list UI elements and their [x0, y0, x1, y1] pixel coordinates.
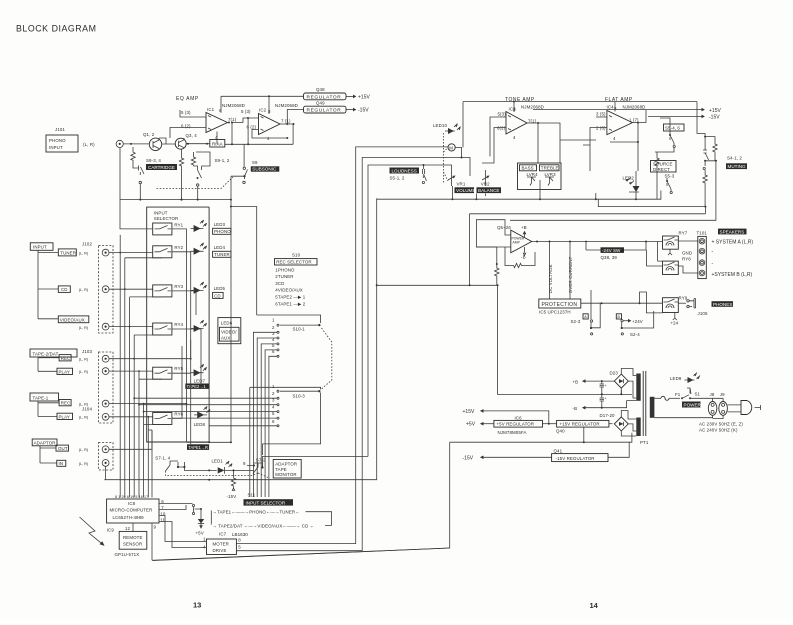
wire IC1 pin4 [216, 132, 218, 144]
line B [598, 199, 705, 206]
svg-text:S10-1: S10-1 [293, 327, 306, 332]
svg-text:S7-1, 4: S7-1, 4 [155, 456, 170, 461]
svg-text:2 (6): 2 (6) [596, 126, 606, 131]
svg-text:INPUT SELECTOR: INPUT SELECTOR [246, 500, 286, 505]
svg-text:4: 4 [203, 545, 206, 550]
svg-text:IN: IN [59, 461, 64, 466]
wires J8 J9 [654, 398, 723, 418]
svg-text:→ TAPE2/DAT ←—→VIDEO/AUX←——→ C: → TAPE2/DAT ←—→VIDEO/AUX←——→ CD ← [213, 523, 315, 528]
phono jack J101 [116, 140, 123, 147]
svg-text:AC 240V 50HZ (K): AC 240V 50HZ (K) [699, 428, 738, 433]
relay out bus b [172, 252, 191, 359]
svg-text:-15V: -15V [709, 115, 720, 121]
wire motor loop [455, 147, 461, 157]
svg-text:6: 6 [272, 419, 275, 424]
svg-text:S7-2: S7-2 [256, 458, 266, 463]
ADAPTOR group label [32, 439, 57, 446]
phono input label box [46, 135, 78, 152]
svg-text:+24: +24 [671, 321, 679, 326]
muting resistor 1 [697, 102, 717, 161]
svg-text:OUT: OUT [58, 446, 68, 451]
SPEAKERS label [718, 229, 747, 235]
wire IC2 output down to S10 [292, 124, 294, 144]
PHONES label [712, 301, 734, 307]
LED4 [194, 248, 201, 255]
CD label led [213, 292, 224, 298]
coil bus 2 [125, 258, 162, 498]
svg-text:VOLUME: VOLUME [456, 188, 475, 193]
svg-text:J102: J102 [82, 242, 92, 247]
svg-text:TONE AMP: TONE AMP [505, 97, 535, 103]
svg-text:RIAA: RIAA [212, 141, 223, 146]
svg-text:S2-3: S2-3 [571, 319, 581, 324]
svg-text:→TAPE1←——→PHONO←—→TUNER←: →TAPE1←——→PHONO←—→TUNER← [213, 510, 300, 515]
wire S5-4,6 [655, 118, 674, 152]
jack tape1 rec [102, 400, 109, 407]
svg-text:REMOTE: REMOTE [123, 535, 143, 540]
svg-text:TAPE2→1: TAPE2→1 [187, 384, 207, 389]
LED3 [194, 225, 201, 232]
svg-text:NJM2068D: NJM2068D [521, 105, 544, 110]
svg-text:8: 8 [614, 106, 617, 111]
svg-text:7 (1): 7 (1) [281, 119, 291, 124]
remote arrow [80, 517, 105, 545]
svg-text:DC VOLTAGE: DC VOLTAGE [548, 264, 553, 293]
resistor Q3 bias 2 [191, 152, 195, 166]
svg-text:12: 12 [125, 526, 131, 531]
IN label [57, 460, 66, 466]
TAPE1-R label [187, 444, 209, 450]
jack adaptor in [102, 460, 109, 467]
-15V rail arrow [648, 115, 703, 117]
power amp output line [532, 241, 662, 243]
LED1 resistor to -15V [231, 470, 235, 490]
filter cap 1 [600, 381, 604, 394]
wire IC4 inputs [583, 117, 607, 171]
svg-text:EQ AMP: EQ AMP [176, 96, 199, 102]
svg-text:(L, R): (L, R) [83, 142, 95, 147]
bottom long wire [152, 548, 450, 560]
wire Q3,4 to RIAA [186, 143, 210, 145]
svg-text:FLAT AMP: FLAT AMP [605, 97, 633, 103]
svg-text:LED5: LED5 [214, 286, 226, 291]
svg-text:M: M [449, 146, 453, 151]
svg-text:-B: -B [573, 406, 578, 411]
wire RIAA to IC1 output [225, 123, 293, 145]
jack tape2 play [102, 368, 109, 375]
-15V distribution wire [153, 442, 450, 560]
svg-text:-15V: -15V [463, 456, 474, 462]
svg-text:F1: F1 [675, 392, 681, 397]
svg-text:J105: J105 [698, 311, 708, 316]
svg-text:PHONO: PHONO [49, 138, 66, 143]
svg-text:+15V REGULATOR: +15V REGULATOR [560, 422, 600, 427]
resistor Q3 bias 1 [179, 149, 183, 199]
svg-text:PHONO: PHONO [214, 229, 231, 234]
svg-text:Q48: Q48 [316, 87, 325, 92]
wire jack to Q1,2 [123, 143, 149, 145]
coil bus 8 [151, 430, 153, 498]
svg-text:Q41: Q41 [554, 448, 563, 453]
jack adaptor out [102, 446, 109, 453]
wires bridge2 to transformer [621, 411, 636, 437]
+15V rail arrow [533, 110, 703, 123]
svg-text:(L, R): (L, R) [79, 251, 89, 255]
OUT label [56, 445, 69, 451]
frame wire mid [510, 161, 716, 221]
relay out bus e [172, 340, 191, 445]
wire IC4 pin8 [614, 102, 616, 112]
wire tone box to IC4 [560, 140, 596, 163]
svg-text:5: 5 [238, 545, 241, 550]
dashed enclosure J103/J104 [99, 352, 114, 423]
wire RY8 from amp [658, 242, 663, 262]
svg-text:J101: J101 [55, 127, 65, 132]
coil bus 3 [130, 297, 162, 498]
svg-text:8 1 20 6 19 5 16 17: 8 1 20 6 19 5 16 17 [115, 495, 148, 499]
svg-text:9: 9 [154, 525, 157, 530]
svg-text:S11: S11 [248, 493, 256, 498]
svg-text:REC: REC [61, 401, 71, 406]
wire adaptor in jack down [105, 466, 107, 479]
S10-3 feed wires [134, 398, 277, 426]
mech dash S7 [166, 471, 269, 478]
svg-text:S1: S1 [695, 392, 701, 397]
TREBLE label [540, 165, 560, 171]
LED7 [194, 369, 201, 376]
svg-text:ADAPTOR: ADAPTOR [34, 441, 56, 446]
MUTING label [726, 163, 747, 169]
wire video jack to RY4 [109, 327, 153, 329]
relay out bus a [172, 229, 187, 404]
svg-text:INPUT: INPUT [49, 145, 63, 150]
svg-text:+B: +B [521, 225, 527, 230]
frame wire upper [470, 207, 706, 286]
motor drive out wires [236, 147, 448, 544]
svg-text:IC1: IC1 [207, 107, 215, 112]
svg-text:Q38, 39: Q38, 39 [601, 255, 618, 260]
transformer secondary 2 [636, 418, 640, 437]
wire IC1 out junction [228, 122, 230, 124]
jack tuner [102, 249, 109, 256]
loudness switch [422, 165, 426, 181]
svg-text:TREBLE: TREBLE [541, 166, 559, 171]
S10-1 feed drops [253, 332, 277, 497]
+5V arrow [482, 423, 494, 425]
CD label [58, 286, 70, 293]
svg-text:PLAY: PLAY [59, 414, 70, 419]
svg-text:1: 1 [203, 537, 206, 542]
CARTRIDGE label [146, 164, 177, 170]
svg-text:NJM2068D: NJM2068D [275, 103, 298, 108]
pin6 wire [159, 503, 193, 505]
AC plug [741, 401, 752, 415]
feedback loop box [476, 220, 510, 247]
svg-text:LED10: LED10 [433, 123, 447, 128]
svg-text:LED3: LED3 [214, 222, 226, 227]
svg-text:REGULATOR: REGULATOR [307, 108, 342, 114]
relay out bus d [172, 329, 201, 387]
transformer core [643, 371, 646, 436]
wire tape2 play jack to RY5 [109, 371, 153, 373]
svg-text:DRIVE: DRIVE [213, 548, 227, 553]
svg-text:POWER: POWER [684, 402, 702, 407]
svg-text:+15V: +15V [709, 108, 721, 114]
coil bus 5 [139, 371, 162, 497]
LOUDNESS label [390, 168, 420, 174]
svg-text:S5-4, 6: S5-4, 6 [665, 126, 680, 131]
LED8 [197, 411, 204, 418]
svg-text:S5-3: S5-3 [665, 174, 675, 179]
wire IC2 +input [243, 118, 259, 123]
svg-text:7(1): 7(1) [228, 117, 237, 122]
svg-text:(L, R): (L, R) [79, 358, 89, 362]
svg-text:S9: S9 [252, 160, 258, 165]
svg-text:IC5 UPC1237H: IC5 UPC1237H [539, 310, 571, 315]
svg-text:4: 4 [513, 135, 516, 140]
svg-text:RY1: RY1 [174, 223, 183, 228]
svg-text:LED9: LED9 [670, 376, 682, 381]
ADAPTOR TAPE MONITOR box [273, 460, 301, 479]
svg-text:+SYSTEM B (L,R): +SYSTEM B (L,R) [712, 272, 753, 278]
svg-text:T101: T101 [697, 231, 708, 236]
svg-text:2: 2 [272, 391, 275, 396]
svg-text:RY2: RY2 [174, 245, 183, 250]
svg-text:3 (5): 3 (5) [596, 112, 606, 117]
svg-text:5 (3): 5 (3) [241, 109, 251, 114]
mech dashed link S9 [157, 177, 234, 189]
svg-text:6(2): 6(2) [497, 126, 506, 131]
coil bus 7 [147, 417, 149, 498]
svg-text:4: 4 [267, 136, 270, 141]
svg-text:4VIDEO/AUX: 4VIDEO/AUX [275, 288, 303, 293]
relay out bus f [172, 346, 182, 418]
transformer PT1 secondary 1 [636, 374, 640, 401]
svg-text:DIRECT: DIRECT [653, 167, 670, 172]
svg-text:LC6527H-4989: LC6527H-4989 [113, 515, 145, 520]
svg-text:AC 230V 50HZ (E, Z): AC 230V 50HZ (E, Z) [699, 422, 743, 427]
PLAY label t1 [57, 413, 73, 419]
svg-text:TAPE-2/DAT: TAPE-2/DAT [33, 351, 59, 356]
svg-text:LED4: LED4 [214, 245, 226, 250]
wire S7 to LED1 [184, 467, 216, 470]
svg-text:5(3): 5(3) [498, 112, 507, 117]
POWER label [682, 402, 701, 408]
svg-text:Q5~26: Q5~26 [497, 225, 511, 230]
svg-text:+15V: +15V [463, 409, 475, 415]
svg-text:VR1: VR1 [457, 182, 466, 187]
+15V arrow out [482, 411, 549, 424]
jack video/aux [102, 323, 109, 330]
wire IC3 inputs [482, 117, 506, 163]
svg-text:PROTECTION: PROTECTION [542, 302, 578, 308]
svg-text:NJM78M05FA: NJM78M05FA [498, 430, 527, 435]
svg-text:(L, R): (L, R) [79, 462, 89, 466]
svg-text:S4-1, 2: S4-1, 2 [727, 156, 742, 161]
svg-text:13: 13 [193, 601, 201, 610]
TUNER label led [213, 251, 231, 257]
svg-text:+5V: +5V [196, 531, 204, 536]
VIDEO/AUX label [58, 316, 89, 323]
svg-text:1PHONO: 1PHONO [275, 267, 295, 272]
wire phono to RY1 [120, 200, 153, 229]
svg-text:S9-3, 4: S9-3, 4 [146, 158, 161, 163]
svg-text:GP1U-571X: GP1U-571X [115, 552, 140, 557]
transformer primary [650, 397, 655, 418]
-15V arrow out [482, 456, 552, 458]
svg-text:REGULATOR: REGULATOR [307, 94, 342, 100]
selector brackets [211, 511, 331, 526]
filter cap 2 [600, 394, 604, 408]
svg-text:NJM2068D: NJM2068D [222, 103, 245, 108]
motor drive out wire 2 [236, 158, 470, 551]
svg-text:GND: GND [682, 251, 692, 256]
wire subsonic rail [231, 207, 257, 316]
relay out bus c [172, 291, 196, 315]
wire IC3 pin8 [513, 102, 515, 112]
wire tape2 rec jack [109, 358, 191, 360]
protection output line [581, 302, 662, 304]
svg-text:(L, R): (L, R) [79, 326, 89, 330]
svg-text:J103: J103 [82, 349, 92, 354]
EQ bottom rail extension [210, 176, 231, 442]
wire tape1 play jack to RY6 [109, 417, 153, 419]
svg-text:IC4: IC4 [607, 105, 615, 110]
svg-text:INPUT: INPUT [33, 245, 47, 250]
jack tape1 play [102, 413, 109, 420]
svg-text:S10: S10 [292, 253, 301, 258]
svg-text:+5V REGULATOR: +5V REGULATOR [497, 422, 535, 427]
svg-text:6TAPE1 —▶ 2: 6TAPE1 —▶ 2 [275, 301, 305, 306]
wire IC2 -input feedback [252, 130, 287, 139]
svg-text:Q49: Q49 [316, 101, 325, 106]
wire tuner jack to RY2 [109, 251, 153, 254]
svg-text:(L, R): (L, R) [79, 288, 89, 292]
svg-text:S5-1, 2: S5-1, 2 [390, 176, 405, 181]
svg-text:MICRO-COMPUTER: MICRO-COMPUTER [110, 508, 153, 513]
svg-text:TUNER: TUNER [214, 252, 230, 257]
svg-text:SENSOR: SENSOR [123, 542, 142, 547]
svg-text:+: + [605, 397, 607, 401]
resistor input shunt [131, 147, 135, 163]
tone control box [518, 163, 562, 190]
pin7 wire [159, 505, 186, 510]
LED6 [194, 325, 201, 332]
wire tape1 rec jack [109, 403, 186, 405]
coil bus 6 [144, 404, 162, 498]
svg-text:LED7: LED7 [194, 379, 206, 384]
svg-text:4: 4 [272, 405, 275, 410]
svg-text:(L, R): (L, R) [79, 370, 89, 374]
svg-text:-15V REGULATOR: -15V REGULATOR [556, 456, 595, 461]
phones jack [687, 300, 689, 302]
svg-text:ADAPTOR: ADAPTOR [275, 462, 297, 467]
svg-text:PT1: PT1 [640, 440, 649, 445]
svg-text:REC: REC [61, 356, 71, 361]
svg-text:8: 8 [268, 109, 271, 114]
PHONO label [213, 228, 231, 234]
svg-text:AMP: AMP [513, 241, 521, 245]
svg-text:RY9: RY9 [679, 296, 688, 301]
svg-text:LVR4: LVR4 [527, 172, 539, 177]
EQ top +rail to regulator Q48 [221, 95, 304, 97]
svg-text:SUBSONIC: SUBSONIC [252, 167, 277, 172]
svg-text:1: 1 [272, 384, 275, 389]
svg-text:PHONES: PHONES [713, 302, 732, 307]
svg-text:4: 4 [272, 337, 275, 342]
svg-text:BALANCE: BALANCE [478, 188, 499, 193]
svg-text:IC2: IC2 [259, 108, 267, 113]
jack tape2 rec [102, 355, 109, 362]
svg-text:LED8: LED8 [194, 422, 206, 427]
frame wire lower [377, 285, 498, 394]
+5V diode [200, 509, 202, 528]
S10-1 mech dash [322, 328, 332, 389]
svg-text:RY3: RY3 [174, 284, 183, 289]
S10-3 output wire [263, 393, 321, 456]
S10 common drop [249, 387, 251, 497]
svg-text:CD: CD [214, 293, 221, 298]
S10-3 common [250, 387, 321, 389]
svg-text:IC7: IC7 [219, 532, 227, 537]
svg-text:Q3, 4: Q3, 4 [186, 133, 198, 138]
wire Q1,2 to Q3,4 [159, 138, 175, 144]
bridge top to transformer [621, 369, 636, 401]
LED9 wire [688, 380, 691, 394]
mech dash link volume motor [444, 133, 449, 183]
motor drive input wires [159, 516, 207, 548]
svg-text:LED1: LED1 [212, 459, 224, 464]
BASS label [520, 165, 537, 171]
input bracket [38, 250, 58, 318]
svg-text:+ SYSTEM A (L,R): + SYSTEM A (L,R) [712, 240, 754, 246]
wire vol wiper down [452, 180, 595, 199]
svg-text:Q1, 2: Q1, 2 [143, 132, 155, 137]
wire IC1 -input [170, 128, 206, 139]
svg-text:J104: J104 [82, 407, 92, 412]
svg-text:3: 3 [272, 331, 275, 336]
coil bus 4 [134, 335, 162, 498]
REC label t1 [59, 400, 71, 406]
svg-text:J8: J8 [710, 392, 715, 397]
motor M [448, 144, 455, 151]
svg-text:2TUNER: 2TUNER [275, 274, 293, 279]
wire adaptor out jack [109, 430, 152, 449]
svg-text:SELECTOR: SELECTOR [154, 216, 179, 221]
svg-text:IC8: IC8 [128, 501, 136, 506]
svg-text:VIDEO/: VIDEO/ [221, 329, 237, 334]
-24V SW box [601, 247, 625, 253]
TUNER label [58, 249, 76, 256]
RIAA box [210, 140, 225, 148]
bottom rail eq [120, 148, 210, 200]
feedback resistor [511, 263, 525, 267]
svg-text:+B: +B [573, 379, 579, 384]
svg-text:5TAPE2 —▶ 1: 5TAPE2 —▶ 1 [275, 295, 305, 300]
wire IC3 out [527, 123, 560, 163]
TAPE-2/DAT group label [30, 349, 77, 357]
svg-text:TAPE1→R: TAPE1→R [188, 445, 208, 450]
PLAY label [57, 368, 73, 374]
svg-text:RY8: RY8 [682, 257, 691, 262]
svg-text:IC6: IC6 [515, 415, 523, 420]
wire cd jack to RY3 [109, 289, 153, 291]
svg-text:RY7: RY7 [679, 231, 688, 236]
svg-text:+5V: +5V [466, 422, 476, 428]
svg-text:5 (3): 5 (3) [181, 110, 191, 115]
svg-text:3CD: 3CD [275, 281, 284, 286]
svg-text:BLOCK DIAGRAM: BLOCK DIAGRAM [16, 24, 96, 34]
